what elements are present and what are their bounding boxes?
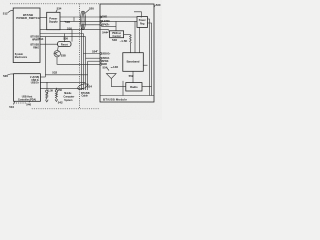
svg-text:USB D+: USB D+ bbox=[31, 83, 40, 85]
svg-text:POWER_SWITCH: POWER_SWITCH bbox=[16, 16, 40, 20]
svg-text:520: 520 bbox=[89, 6, 94, 10]
svg-text:Mobile: Mobile bbox=[64, 93, 72, 95]
svg-text:538: 538 bbox=[61, 53, 66, 57]
svg-text:Supply: Supply bbox=[49, 20, 58, 24]
svg-text:3.3VDC: 3.3VDC bbox=[102, 21, 110, 23]
svg-text:526: 526 bbox=[3, 74, 8, 78]
svg-text:BT/USB: BT/USB bbox=[81, 93, 90, 95]
svg-text:Computer: Computer bbox=[64, 96, 75, 99]
svg-text:514: 514 bbox=[39, 37, 44, 41]
svg-text:548: 548 bbox=[112, 38, 117, 42]
svg-text:SPKR+: SPKR+ bbox=[102, 25, 110, 27]
svg-text:532: 532 bbox=[52, 71, 57, 75]
svg-text:516: 516 bbox=[67, 26, 72, 30]
svg-text:Reg: Reg bbox=[140, 23, 145, 25]
svg-text:Electronics: Electronics bbox=[15, 56, 28, 59]
svg-text:System: System bbox=[15, 53, 23, 56]
svg-text:Reset: Reset bbox=[61, 44, 68, 47]
svg-text:530: 530 bbox=[156, 3, 161, 7]
svg-text:Baseband: Baseband bbox=[127, 59, 140, 63]
svg-text:BT/USB: BT/USB bbox=[30, 44, 39, 46]
svg-text:USB D-: USB D- bbox=[31, 80, 39, 82]
svg-text:USB-D-: USB-D- bbox=[102, 58, 110, 60]
svg-text:RING: RING bbox=[33, 47, 39, 49]
svg-text:V+(USB): V+(USB) bbox=[30, 77, 39, 79]
svg-text:Cable: Cable bbox=[82, 96, 89, 98]
svg-text:534: 534 bbox=[57, 6, 62, 10]
svg-text:PWR-on: PWR-on bbox=[112, 33, 122, 35]
svg-text:15K: 15K bbox=[58, 90, 63, 92]
svg-text:Radio: Radio bbox=[130, 85, 138, 89]
svg-text:BT/USB Module: BT/USB Module bbox=[103, 97, 127, 101]
svg-text:Controller (PDA): Controller (PDA) bbox=[18, 99, 36, 102]
svg-text:Power: Power bbox=[139, 20, 146, 22]
svg-text:540: 540 bbox=[26, 103, 31, 107]
svg-text:~1.5K: ~1.5K bbox=[120, 39, 129, 43]
svg-text:512: 512 bbox=[3, 11, 8, 15]
svg-text:552: 552 bbox=[129, 74, 134, 78]
svg-text:1.5K: 1.5K bbox=[48, 91, 53, 93]
svg-text:524: 524 bbox=[87, 85, 92, 89]
svg-text:542: 542 bbox=[58, 100, 63, 104]
svg-text:510: 510 bbox=[9, 105, 14, 109]
svg-text:GND: GND bbox=[102, 17, 107, 19]
svg-text:518: 518 bbox=[65, 20, 70, 24]
svg-text:SPKR-: SPKR- bbox=[102, 61, 109, 63]
svg-text:USB Host: USB Host bbox=[22, 96, 33, 99]
svg-text:System: System bbox=[64, 99, 72, 102]
svg-text:USB-D+: USB-D+ bbox=[102, 53, 111, 55]
svg-text:148: 148 bbox=[113, 65, 118, 69]
svg-text:536: 536 bbox=[63, 37, 68, 41]
